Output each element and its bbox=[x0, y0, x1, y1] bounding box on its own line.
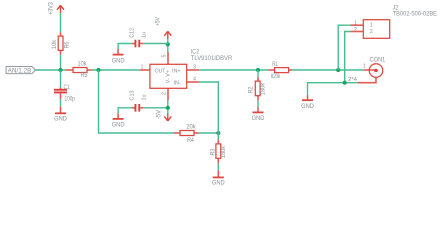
net label AN/1.2B bbox=[6, 66, 35, 74]
ground below sleeve net bbox=[301, 96, 314, 110]
connector CON1 bbox=[357, 64, 382, 83]
svg-text:IN-: IN- bbox=[174, 81, 181, 87]
wire C1 to GND bbox=[60, 99, 62, 107]
svg-text:180k: 180k bbox=[220, 145, 227, 158]
node D junction bbox=[256, 68, 260, 72]
wire R4 to node C bbox=[199, 132, 219, 134]
wire op-amp output to R1 bbox=[199, 69, 268, 71]
svg-text:GND: GND bbox=[54, 116, 67, 123]
node F junction bbox=[343, 81, 347, 85]
wire C12 to GND corner bbox=[118, 44, 132, 50]
svg-text:V-: V- bbox=[166, 78, 172, 83]
svg-text:GND: GND bbox=[212, 180, 225, 187]
svg-text:C12: C12 bbox=[130, 28, 136, 38]
node A junction bbox=[58, 68, 62, 72]
svg-text:R4: R4 bbox=[187, 137, 194, 144]
wire feedback node B down and right to R4 bbox=[99, 70, 175, 133]
op-amp IC2 bbox=[140, 52, 200, 101]
svg-text:R6: R6 bbox=[63, 41, 70, 48]
svg-text:R1: R1 bbox=[272, 61, 278, 68]
svg-text:C13: C13 bbox=[130, 91, 136, 101]
svg-text:2: 2 bbox=[354, 27, 357, 33]
svg-text:1: 1 bbox=[354, 20, 357, 26]
svg-text:OUT: OUT bbox=[155, 69, 166, 75]
resistor R5 bbox=[66, 68, 92, 73]
svg-text:R5: R5 bbox=[81, 72, 88, 79]
svg-text:180k: 180k bbox=[260, 82, 267, 95]
svg-text:+3V3: +3V3 bbox=[47, 2, 54, 15]
svg-text:GND: GND bbox=[112, 57, 125, 64]
wire node C up to op-amp pin4 bbox=[199, 82, 218, 133]
power -5V arrow bbox=[164, 114, 171, 121]
wire J2 pin1 down to node E bbox=[338, 25, 350, 70]
svg-text:10k: 10k bbox=[78, 61, 88, 68]
ground below R2 bbox=[252, 107, 265, 122]
power +3V3 arrow bbox=[57, 5, 64, 13]
wire R6 to node A bbox=[60, 55, 62, 70]
connector J2 bbox=[351, 20, 390, 39]
svg-text:2: 2 bbox=[162, 92, 168, 95]
wire R5 to op-amp pin1 bbox=[92, 69, 140, 71]
svg-text:TB002-500-02BE: TB002-500-02BE bbox=[393, 11, 437, 18]
svg-text:3: 3 bbox=[193, 64, 196, 70]
capacitor C12 bbox=[132, 40, 144, 48]
wire AN label to R5 bbox=[35, 69, 66, 71]
svg-text:4: 4 bbox=[193, 76, 196, 82]
ground left of C12 bbox=[112, 49, 125, 64]
svg-text:CON1: CON1 bbox=[370, 57, 386, 64]
svg-text:R2: R2 bbox=[247, 86, 254, 93]
capacitor C1 bbox=[54, 70, 67, 99]
node +5V junction bbox=[166, 42, 170, 46]
svg-text:AN/1.2B: AN/1.2B bbox=[8, 68, 32, 75]
svg-text:TLV9101IDBVR: TLV9101IDBVR bbox=[191, 55, 233, 62]
wire +5V to pin5 bbox=[167, 39, 169, 52]
resistor R4 bbox=[174, 131, 199, 136]
ground left of C13 bbox=[112, 113, 125, 128]
svg-text:10k: 10k bbox=[51, 39, 58, 49]
svg-text:R3: R3 bbox=[210, 148, 217, 155]
svg-text:5: 5 bbox=[162, 54, 168, 57]
wire R1 to CON1 bbox=[292, 69, 364, 71]
resistor R3 bbox=[216, 139, 221, 163]
wire R3 to GND bbox=[217, 163, 219, 170]
wire pin2 to -5V node bbox=[167, 101, 169, 114]
resistor R1 bbox=[268, 68, 292, 73]
svg-text:IN+: IN+ bbox=[172, 69, 181, 75]
wire C13 to -5V node bbox=[143, 107, 168, 109]
node B junction bbox=[96, 68, 100, 72]
wire node C to R3 bbox=[217, 133, 219, 139]
svg-text:+5V: +5V bbox=[154, 17, 161, 26]
node E junction bbox=[336, 68, 340, 72]
wire J2 pin2 down to sleeve net bbox=[345, 32, 351, 83]
node C junction bbox=[216, 131, 220, 135]
resistor R6 bbox=[58, 32, 63, 55]
svg-text:820k: 820k bbox=[271, 73, 281, 80]
svg-text:GND: GND bbox=[252, 115, 265, 122]
wire +3V3 to R6 bbox=[60, 13, 62, 32]
wire C12 to +5V node bbox=[143, 43, 168, 45]
svg-text:V+: V+ bbox=[166, 70, 172, 77]
ground below C1 bbox=[54, 107, 67, 123]
svg-text:2: 2 bbox=[370, 29, 373, 35]
svg-text:1: 1 bbox=[141, 64, 144, 70]
wire R2 to GND bbox=[257, 101, 259, 107]
svg-text:GND: GND bbox=[301, 103, 314, 110]
svg-text:C1: C1 bbox=[64, 84, 71, 91]
svg-text:1u: 1u bbox=[142, 95, 148, 101]
wire sleeve net to GND corner bbox=[308, 83, 358, 96]
svg-text:2*4: 2*4 bbox=[348, 77, 357, 83]
wire node D to R2 bbox=[257, 70, 259, 77]
svg-text:1u: 1u bbox=[142, 32, 148, 38]
node -5V junction bbox=[166, 106, 170, 110]
wire C13 to GND corner bbox=[118, 108, 132, 114]
svg-text:20k: 20k bbox=[186, 124, 196, 131]
resistor R2 bbox=[255, 77, 260, 101]
svg-text:1: 1 bbox=[370, 23, 373, 29]
svg-text:1: 1 bbox=[363, 63, 366, 69]
svg-text:GND: GND bbox=[112, 122, 125, 129]
capacitor C13 bbox=[132, 104, 144, 112]
svg-text:-5V: -5V bbox=[156, 109, 163, 119]
power +5V arrow bbox=[164, 31, 171, 39]
svg-text:100p: 100p bbox=[65, 95, 76, 102]
ground below R3 bbox=[212, 170, 225, 186]
